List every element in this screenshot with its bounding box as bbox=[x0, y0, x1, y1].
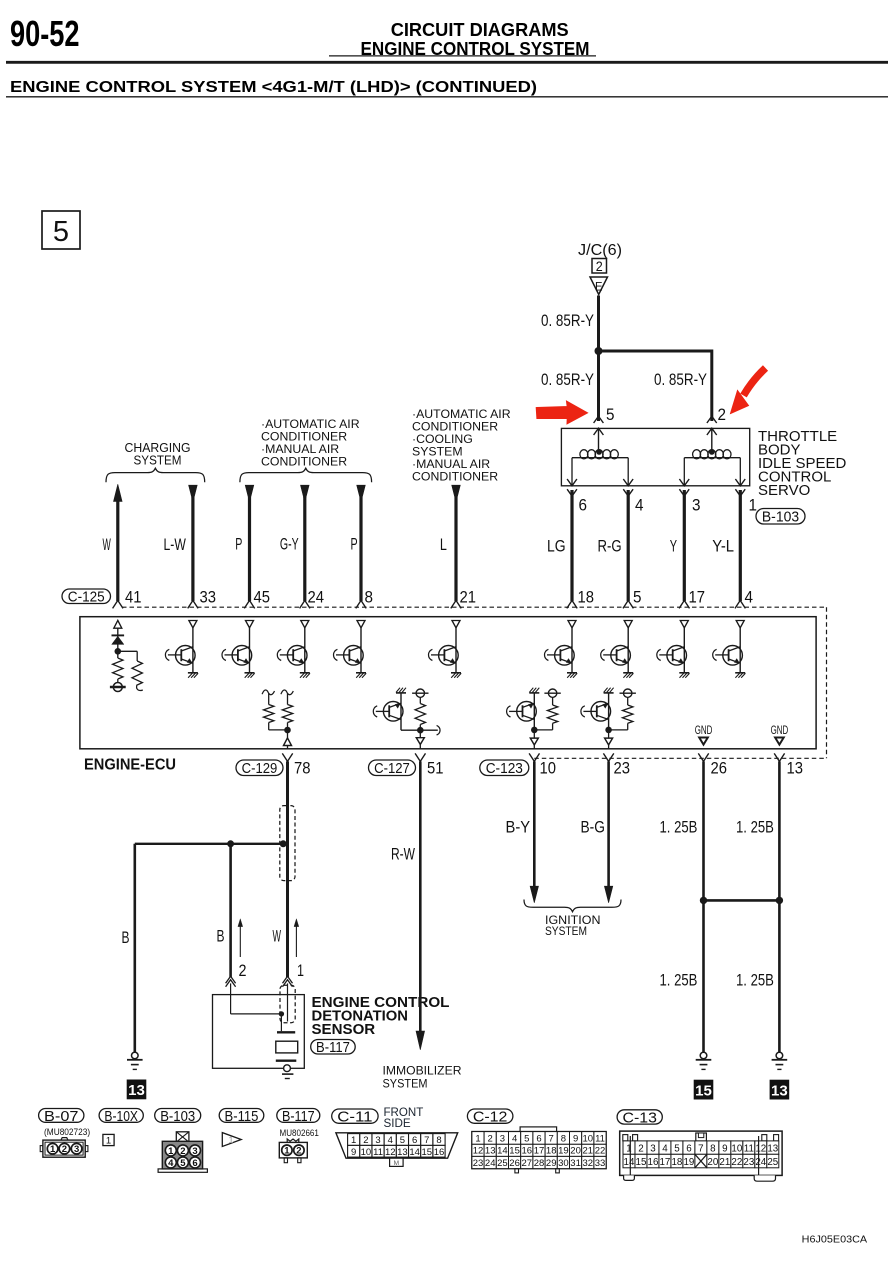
svg-text:8: 8 bbox=[710, 1144, 716, 1155]
svg-text:21: 21 bbox=[460, 589, 477, 607]
zener diode D1 bbox=[112, 636, 124, 644]
svg-text:16: 16 bbox=[648, 1157, 659, 1168]
resistor R51 bbox=[415, 704, 425, 725]
wire W pin 78 down bbox=[286, 761, 289, 977]
svg-text:21: 21 bbox=[583, 1146, 594, 1157]
svg-text:26: 26 bbox=[711, 760, 728, 778]
svg-text:4: 4 bbox=[388, 1135, 393, 1146]
svg-text:1: 1 bbox=[351, 1135, 356, 1146]
connector fork pin 51 bottom bbox=[415, 753, 425, 761]
svg-text:Y: Y bbox=[670, 538, 677, 556]
svg-text:B-117: B-117 bbox=[282, 1109, 315, 1125]
svg-text:4: 4 bbox=[512, 1134, 517, 1145]
transistor Q17 (pin 17) bbox=[683, 628, 685, 673]
ground tie wire bbox=[704, 899, 780, 902]
transistor Q23 bbox=[604, 692, 614, 694]
triangle node pin 5 bbox=[624, 621, 632, 628]
svg-text:B-10X: B-10X bbox=[104, 1109, 138, 1125]
wire down to servo pin 2 bbox=[710, 350, 713, 422]
svg-text:CIRCUIT DIAGRAMS: CIRCUIT DIAGRAMS bbox=[391, 19, 569, 40]
exit chevrons servo pin 6 bbox=[567, 479, 577, 486]
zener diode D1 bar bbox=[112, 634, 125, 636]
resistor R51 top circle bbox=[416, 689, 424, 697]
svg-text:P: P bbox=[235, 536, 242, 554]
svg-text:13: 13 bbox=[128, 1082, 145, 1099]
svg-text:78: 78 bbox=[294, 760, 311, 778]
svg-text:33: 33 bbox=[200, 589, 217, 607]
wire W to charging system with up arrow bbox=[116, 499, 119, 601]
connector C-12 drawing bbox=[520, 1127, 557, 1132]
connector ref B-117 pill (sensor) bbox=[311, 1040, 356, 1055]
svg-text:1. 25B: 1. 25B bbox=[736, 972, 774, 990]
connector ref B-115 pill bbox=[219, 1109, 264, 1123]
wire LG servo to ECU bbox=[570, 490, 573, 601]
svg-text:17: 17 bbox=[534, 1146, 545, 1157]
svg-text:13: 13 bbox=[787, 760, 804, 778]
connector fork pin 4 top bbox=[735, 600, 745, 608]
dashed connector boundary top bbox=[122, 606, 827, 608]
sensor case terminal circle bbox=[284, 1065, 291, 1072]
junction connector box 2 bbox=[592, 259, 607, 274]
triangle node pin 18 bbox=[568, 621, 576, 628]
node dot pin41 bbox=[115, 648, 122, 655]
svg-text:0. 85R-Y: 0. 85R-Y bbox=[541, 371, 594, 389]
svg-text:10: 10 bbox=[361, 1147, 372, 1158]
wire 0.85R-Y from J/C(6) bbox=[597, 296, 600, 352]
svg-text:SIDE: SIDE bbox=[384, 1118, 412, 1130]
svg-text:20: 20 bbox=[707, 1157, 718, 1168]
hook above resistor R78a bbox=[262, 690, 274, 695]
connector ref B-07 pill bbox=[39, 1109, 84, 1123]
svg-text:E: E bbox=[595, 280, 603, 294]
junction node dot bbox=[595, 347, 603, 355]
triangle node pin 45 bbox=[246, 621, 254, 628]
connector fork pin 8 top bbox=[356, 600, 366, 608]
wire Y servo to ECU bbox=[683, 490, 686, 601]
connector B-115 drawing bbox=[222, 1133, 241, 1147]
svg-text:Y-L: Y-L bbox=[712, 538, 734, 556]
svg-text:B-G: B-G bbox=[581, 819, 605, 837]
svg-text:5: 5 bbox=[53, 216, 69, 248]
triangle node pin 8 bbox=[357, 621, 365, 628]
svg-text:1: 1 bbox=[297, 962, 304, 980]
svg-text:12: 12 bbox=[473, 1146, 484, 1157]
coil L1 right leg bbox=[627, 458, 629, 486]
resistor R78a leads bbox=[268, 693, 270, 704]
svg-text:3: 3 bbox=[650, 1144, 656, 1155]
triangle node pin 78 bbox=[284, 738, 292, 746]
svg-text:32: 32 bbox=[583, 1158, 594, 1169]
twist chevrons sensor pin 2 bbox=[226, 976, 236, 983]
arrow to immobilizer system bbox=[416, 1031, 425, 1050]
node dot pin 78 bbox=[284, 727, 291, 734]
resistor R51 lead bbox=[419, 697, 421, 703]
svg-text:5: 5 bbox=[606, 406, 615, 424]
transistor Q18 (pin 18) bbox=[571, 628, 573, 673]
svg-text:23: 23 bbox=[743, 1157, 754, 1168]
svg-text:3: 3 bbox=[500, 1134, 505, 1145]
svg-text:P: P bbox=[351, 536, 358, 554]
svg-text:24: 24 bbox=[755, 1157, 766, 1168]
triangle node pin 4 bbox=[736, 621, 744, 628]
connector fork pin 13 bottom bbox=[774, 753, 784, 761]
transistor Q10 bbox=[529, 692, 539, 694]
transistor Q4 (pin 4) bbox=[739, 628, 741, 673]
svg-text:C-11: C-11 bbox=[337, 1110, 372, 1126]
svg-text:ENGINE CONTROL SYSTEM <4G1-M/T: ENGINE CONTROL SYSTEM <4G1-M/T (LHD)> (C… bbox=[10, 79, 537, 96]
svg-text:15: 15 bbox=[509, 1146, 520, 1157]
svg-text:LG: LG bbox=[547, 538, 566, 556]
wire B-G pin 23 down bbox=[607, 761, 610, 887]
svg-text:5: 5 bbox=[674, 1144, 680, 1155]
wire P from air conditioner bbox=[359, 497, 362, 601]
wire 1.25B pin 13 down bbox=[778, 761, 781, 1052]
connector fork pin 45 top bbox=[244, 600, 254, 608]
svg-text:5: 5 bbox=[400, 1135, 405, 1146]
svg-text:22: 22 bbox=[731, 1157, 742, 1168]
connector fork pin 24 top bbox=[300, 600, 310, 608]
svg-text:C-13: C-13 bbox=[623, 1110, 657, 1126]
wire pin41 internal bbox=[117, 628, 119, 658]
connector B-103 keying box bbox=[176, 1132, 189, 1142]
triangle node pin 41 bbox=[114, 620, 122, 628]
svg-text:2: 2 bbox=[638, 1144, 643, 1155]
resistor R23 bbox=[623, 705, 633, 723]
node dot ground tie right bbox=[776, 897, 783, 904]
svg-text:7: 7 bbox=[549, 1134, 554, 1145]
dashed shield around wire W upper bbox=[280, 806, 295, 881]
transistor Q5 (pin 5) bbox=[627, 628, 629, 673]
wire B ground branch bbox=[134, 844, 137, 1052]
wire B to sensor pin 2 bbox=[229, 844, 232, 977]
connector fork pin 10 bottom bbox=[529, 753, 539, 761]
svg-text:2: 2 bbox=[488, 1134, 493, 1145]
connector ref C-125 pill bbox=[62, 589, 111, 604]
svg-text:4: 4 bbox=[635, 497, 644, 515]
ground symbol pin 13 bbox=[776, 1052, 783, 1059]
wire Y-L servo to ECU bbox=[739, 490, 742, 601]
connector ref C-127 pill bbox=[369, 760, 416, 776]
svg-text:13: 13 bbox=[767, 1144, 778, 1155]
connector ref C-123 pill bbox=[480, 760, 529, 776]
circle-bar symbol pin41 bbox=[113, 683, 122, 692]
R78a bottom elbow bbox=[268, 723, 270, 730]
transistor Q45 (pin 45) bbox=[249, 628, 251, 673]
svg-text:11: 11 bbox=[595, 1134, 605, 1145]
connector ref C-11 pill bbox=[332, 1109, 378, 1123]
svg-text:15: 15 bbox=[422, 1147, 433, 1158]
svg-text:C-123: C-123 bbox=[486, 761, 523, 777]
svg-text:R-G: R-G bbox=[598, 538, 622, 556]
svg-text:M: M bbox=[394, 1160, 399, 1167]
svg-text:C-129: C-129 bbox=[242, 761, 278, 777]
connector fork pin 21 top bbox=[451, 600, 461, 608]
svg-text:25: 25 bbox=[767, 1157, 778, 1168]
svg-text:23: 23 bbox=[614, 760, 631, 778]
svg-text:W: W bbox=[103, 536, 112, 554]
wire P from air conditioner bbox=[248, 497, 251, 601]
svg-text:L-W: L-W bbox=[164, 536, 187, 554]
coil L2 left leg bbox=[683, 458, 685, 486]
connector ref C-129 pill bbox=[236, 760, 283, 776]
svg-text:5: 5 bbox=[524, 1134, 529, 1145]
direction arrow beside pin 1 bbox=[295, 923, 297, 957]
svg-text:23: 23 bbox=[473, 1158, 484, 1169]
brace over charging system wires bbox=[106, 468, 205, 482]
branch wire horizontal bbox=[135, 843, 287, 845]
exit chevrons servo pin 3 bbox=[679, 479, 689, 486]
thin wire pin2 into sensor bbox=[230, 983, 232, 1014]
wire R51 to node bbox=[419, 725, 421, 738]
svg-text:18: 18 bbox=[546, 1146, 557, 1157]
svg-text:22: 22 bbox=[595, 1146, 606, 1157]
dashed shield around wire W lower bbox=[280, 985, 295, 1022]
wire down to servo pin 5 bbox=[597, 351, 600, 421]
svg-text:SYSTEM: SYSTEM bbox=[545, 926, 587, 938]
figure number box 5 bbox=[42, 211, 80, 249]
svg-text:B-103: B-103 bbox=[160, 1109, 195, 1125]
svg-text:6: 6 bbox=[579, 497, 588, 515]
hook right of node 51 bbox=[437, 725, 440, 735]
svg-text:6: 6 bbox=[686, 1144, 692, 1155]
stub pin10 to box edge bbox=[533, 745, 535, 749]
svg-text:28: 28 bbox=[534, 1158, 545, 1169]
svg-text:2: 2 bbox=[62, 1144, 67, 1155]
svg-text:4: 4 bbox=[168, 1158, 174, 1169]
entry chevrons servo pin 5 bbox=[594, 416, 604, 423]
GND triangle pin 13 bbox=[775, 738, 784, 745]
svg-text:SYSTEM: SYSTEM bbox=[134, 453, 182, 468]
svg-text:19: 19 bbox=[683, 1157, 694, 1168]
dashed connector boundary right bbox=[826, 607, 828, 758]
svg-text:27: 27 bbox=[522, 1158, 533, 1169]
ground ref box 13 left bbox=[127, 1080, 147, 1100]
svg-text:1: 1 bbox=[284, 1146, 290, 1157]
sensor internal branch wire bbox=[231, 1013, 282, 1015]
stub pin78 to box edge bbox=[287, 746, 289, 749]
triangle node pin 24 bbox=[301, 621, 309, 628]
connector fork pin 17 top bbox=[679, 600, 689, 608]
svg-text:14: 14 bbox=[624, 1157, 635, 1168]
exit chevrons servo pin 4 bbox=[623, 479, 633, 486]
svg-text:B-07: B-07 bbox=[44, 1109, 78, 1125]
wire node to triangle pin 10 bbox=[533, 730, 535, 738]
svg-text:B-103: B-103 bbox=[762, 510, 799, 526]
connector fork pin 78 bottom bbox=[282, 753, 292, 761]
sensor earth bar 1 bbox=[282, 1073, 293, 1075]
wire R78b to node bbox=[287, 723, 289, 738]
connector ref B-103 pill bbox=[756, 509, 805, 525]
svg-text:C-125: C-125 bbox=[68, 590, 105, 606]
node dot pin 23 bbox=[605, 727, 612, 734]
svg-text:(MU802723): (MU802723) bbox=[44, 1127, 90, 1137]
svg-text:33: 33 bbox=[595, 1158, 606, 1169]
svg-text:24: 24 bbox=[485, 1158, 496, 1169]
connector ref C-12 pill bbox=[467, 1109, 513, 1123]
hook above resistor R78b bbox=[281, 690, 293, 695]
svg-text:21: 21 bbox=[719, 1157, 730, 1168]
svg-text:90-52: 90-52 bbox=[10, 13, 80, 54]
svg-text:1: 1 bbox=[168, 1146, 174, 1157]
wire L from cooling system bbox=[454, 497, 457, 601]
connector ref B-117 pill (gallery) bbox=[277, 1109, 320, 1123]
svg-text:45: 45 bbox=[254, 589, 271, 607]
header thick rule bbox=[6, 61, 888, 64]
node dot pin 51 bbox=[417, 727, 424, 734]
svg-text:B: B bbox=[217, 928, 225, 946]
svg-text:B-Y: B-Y bbox=[506, 819, 531, 837]
branch wire to R2 bbox=[118, 650, 137, 652]
svg-text:R-W: R-W bbox=[391, 846, 415, 864]
svg-text:17: 17 bbox=[689, 589, 706, 607]
svg-text:6: 6 bbox=[192, 1158, 197, 1169]
resistor R23 lead bbox=[627, 697, 629, 705]
svg-text:18: 18 bbox=[578, 589, 595, 607]
svg-text:GND: GND bbox=[771, 723, 789, 737]
svg-text:C-12: C-12 bbox=[473, 1110, 508, 1126]
arrow B-Y to ignition bbox=[530, 886, 538, 903]
svg-text:14: 14 bbox=[409, 1147, 420, 1158]
svg-text:9: 9 bbox=[573, 1134, 578, 1145]
svg-text:3: 3 bbox=[692, 497, 701, 515]
connector B-07 drawing bbox=[43, 1140, 85, 1157]
svg-text:GND: GND bbox=[695, 723, 713, 737]
svg-text:3: 3 bbox=[74, 1144, 79, 1155]
triangle node pin 10 bbox=[530, 738, 538, 745]
svg-text:8: 8 bbox=[365, 589, 374, 607]
svg-text:B-117: B-117 bbox=[316, 1040, 350, 1056]
svg-text:12: 12 bbox=[755, 1144, 766, 1155]
GND triangle pin 26 bbox=[699, 738, 708, 745]
coil L1 of idle speed servo bbox=[572, 457, 628, 459]
svg-text:8: 8 bbox=[561, 1134, 566, 1145]
svg-text:6: 6 bbox=[536, 1134, 541, 1145]
svg-text:2: 2 bbox=[239, 962, 247, 980]
svg-text:B-115: B-115 bbox=[225, 1109, 259, 1125]
svg-text:IMMOBILIZER: IMMOBILIZER bbox=[383, 1066, 462, 1078]
resistor R10 bbox=[547, 705, 557, 723]
svg-text:15: 15 bbox=[695, 1082, 712, 1099]
svg-text:5: 5 bbox=[633, 589, 642, 607]
exit chevrons servo pin 1 bbox=[735, 479, 745, 486]
resistor R10 top circle bbox=[548, 689, 556, 697]
throttle body idle speed control servo box bbox=[561, 428, 749, 485]
connector ref B-103 pill (gallery) bbox=[155, 1109, 201, 1123]
svg-text:2: 2 bbox=[180, 1146, 185, 1157]
svg-text:L: L bbox=[440, 536, 447, 554]
junction triangle E bbox=[590, 277, 608, 295]
svg-text:4: 4 bbox=[662, 1144, 668, 1155]
ground ref box 15 bbox=[694, 1080, 714, 1100]
direction arrow beside pin 2 bbox=[239, 923, 241, 957]
svg-text:1. 25B: 1. 25B bbox=[660, 972, 698, 990]
red annotation arrow pointing down-left at pin 2 bbox=[744, 368, 766, 396]
transistor Q8 (pin 8) bbox=[360, 628, 362, 673]
svg-text:12: 12 bbox=[385, 1147, 396, 1158]
sensor internal lead bbox=[280, 1014, 282, 1031]
svg-text:26: 26 bbox=[509, 1158, 520, 1169]
wire R-G servo to ECU bbox=[627, 490, 630, 601]
transistor Q51 bbox=[396, 692, 406, 694]
connector C-13 drawing bbox=[620, 1131, 782, 1175]
svg-text:4: 4 bbox=[745, 589, 754, 607]
brace over air conditioner wires bbox=[240, 468, 372, 482]
svg-text:30: 30 bbox=[558, 1158, 569, 1169]
resistor R1 pin41 bbox=[113, 658, 123, 679]
transistor Q21 (pin 21) bbox=[455, 628, 457, 673]
svg-text:10: 10 bbox=[540, 760, 557, 778]
connector fork pin 41 top bbox=[113, 600, 123, 608]
svg-text:J/C(6): J/C(6) bbox=[578, 242, 622, 259]
wire stub pin5 to coil bbox=[598, 428, 600, 452]
resistor R10 elbow to node bbox=[552, 723, 554, 730]
wire R-W pin 51 down bbox=[419, 761, 422, 1032]
resistor R78a bbox=[264, 705, 274, 723]
connector B-103 drawing bbox=[158, 1169, 207, 1172]
branch wire right of node 51 bbox=[420, 729, 438, 731]
wire B-Y pin 10 down bbox=[533, 761, 536, 887]
svg-text:18: 18 bbox=[671, 1157, 682, 1168]
svg-text:3: 3 bbox=[192, 1146, 197, 1157]
svg-text:2: 2 bbox=[296, 1146, 301, 1157]
ground ref box 13 right bbox=[770, 1080, 790, 1100]
ENGINE-ECU box bbox=[80, 617, 816, 749]
connector fork pin 18 top bbox=[567, 600, 577, 608]
svg-text:1. 25B: 1. 25B bbox=[660, 819, 698, 837]
svg-text:14: 14 bbox=[497, 1146, 508, 1157]
svg-text:13: 13 bbox=[485, 1146, 496, 1157]
entry chevrons servo pin 2 bbox=[707, 416, 717, 423]
svg-text:19: 19 bbox=[558, 1146, 569, 1157]
svg-text:10: 10 bbox=[583, 1134, 594, 1145]
svg-text:C-127: C-127 bbox=[374, 761, 410, 777]
wire horizontal branch bbox=[597, 350, 712, 353]
svg-text:13: 13 bbox=[397, 1147, 408, 1158]
svg-text:8: 8 bbox=[436, 1135, 441, 1146]
connector fork pin 33 top bbox=[188, 600, 198, 608]
wire node to triangle pin 23 bbox=[608, 730, 610, 738]
svg-text:1: 1 bbox=[229, 1135, 234, 1145]
svg-text:13: 13 bbox=[771, 1082, 788, 1099]
resistor R23 elbow to node bbox=[627, 723, 629, 730]
stub pin51 to box edge bbox=[419, 744, 421, 748]
svg-text:11: 11 bbox=[373, 1147, 383, 1158]
coil L2 of idle speed servo bbox=[684, 457, 740, 459]
wire Q51 to node bbox=[401, 729, 420, 731]
twist chevrons sensor pin 1 bbox=[283, 976, 293, 983]
sensor earth bar 2 bbox=[285, 1078, 290, 1080]
svg-text:SENSOR: SENSOR bbox=[312, 1022, 376, 1038]
svg-text:10: 10 bbox=[731, 1144, 742, 1155]
svg-text:1: 1 bbox=[106, 1135, 111, 1146]
svg-text:MU802661: MU802661 bbox=[280, 1128, 319, 1139]
svg-text:9: 9 bbox=[351, 1147, 356, 1158]
node dot pin 10 bbox=[531, 727, 538, 734]
wire 1.25B pin 26 down bbox=[702, 761, 705, 1052]
svg-text:41: 41 bbox=[125, 589, 142, 607]
svg-text:7: 7 bbox=[698, 1144, 703, 1155]
triangle node pin 21 bbox=[452, 621, 460, 628]
svg-text:20: 20 bbox=[570, 1146, 581, 1157]
wire G-Y from air conditioner bbox=[303, 497, 306, 601]
svg-text:W: W bbox=[273, 928, 282, 946]
resistor R78b bbox=[282, 705, 292, 723]
connector B-117 drawing bbox=[279, 1142, 307, 1158]
hook below R2 bbox=[137, 685, 143, 691]
coil L1 center tap dot bbox=[596, 449, 602, 455]
svg-text:24: 24 bbox=[308, 589, 325, 607]
svg-text:2: 2 bbox=[596, 259, 603, 274]
